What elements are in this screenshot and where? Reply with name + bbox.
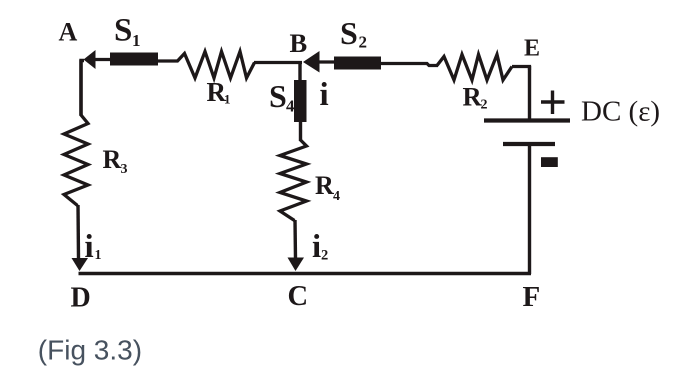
- label i1: [85, 229, 102, 265]
- svg-text:4: 4: [333, 189, 340, 204]
- svg-text:R: R: [463, 82, 483, 112]
- resistor R1: [177, 52, 255, 79]
- svg-text:i: i: [85, 229, 94, 265]
- resistor R4: [280, 140, 307, 221]
- wire arrow to S2: [318, 60, 335, 63]
- svg-text:F: F: [523, 281, 541, 313]
- wire R1 to B: [254, 61, 302, 64]
- current arrow i2: [288, 258, 305, 272]
- wire R2 to corner E: [512, 67, 530, 71]
- svg-text:1: 1: [95, 248, 102, 263]
- svg-text:3: 3: [121, 162, 128, 177]
- wire A down to R3: [79, 60, 82, 116]
- current arrow i1: [72, 258, 89, 271]
- wire S2 to R2: [381, 64, 438, 66]
- wire S4 to R4: [299, 122, 302, 141]
- svg-text:1: 1: [132, 31, 141, 50]
- svg-text:R: R: [315, 171, 334, 200]
- svg-text:S: S: [269, 78, 287, 114]
- switch S1: [110, 53, 158, 66]
- wire R3 down to arrow: [76, 205, 80, 259]
- svg-text:A: A: [59, 18, 78, 47]
- svg-text:DC (ε): DC (ε): [581, 96, 660, 128]
- svg-text:2: 2: [481, 98, 488, 113]
- svg-text:E: E: [524, 36, 540, 62]
- wire corner at A: [81, 61, 84, 116]
- label R1: [207, 77, 231, 107]
- wire arrow to S1: [94, 58, 111, 61]
- current arrow into B: [303, 51, 320, 73]
- wire R4 down to arrow: [293, 220, 297, 259]
- battery positive plate: [484, 118, 570, 122]
- svg-text:4: 4: [286, 97, 295, 116]
- svg-text:R: R: [103, 145, 122, 174]
- battery negative plate: [503, 142, 555, 146]
- label S4: [269, 78, 295, 116]
- label S1: [114, 12, 141, 50]
- resistor R2: [437, 55, 512, 81]
- wire E down to battery: [528, 66, 531, 120]
- wire S1 to R1: [158, 59, 178, 62]
- svg-text:C: C: [288, 281, 309, 312]
- svg-text:(Fig 3.3): (Fig 3.3): [38, 335, 142, 366]
- svg-text:i: i: [312, 229, 321, 265]
- switch S4: [294, 80, 307, 122]
- label R4: [315, 171, 340, 204]
- minus sign: [541, 157, 558, 167]
- label S2: [340, 15, 367, 52]
- current arrow at A: [84, 50, 96, 69]
- svg-text:S: S: [114, 12, 132, 48]
- svg-text:B: B: [290, 28, 308, 58]
- svg-text:2: 2: [321, 248, 328, 264]
- bottom wire D to C to F: [79, 272, 532, 276]
- svg-text:2: 2: [359, 33, 368, 52]
- svg-text:S: S: [340, 15, 358, 51]
- svg-text:D: D: [71, 283, 91, 314]
- label i2: [312, 229, 328, 265]
- resistor R3: [64, 115, 88, 206]
- label R2: [463, 82, 488, 113]
- svg-text:1: 1: [224, 92, 231, 107]
- plus sign: [541, 91, 565, 115]
- svg-text:i: i: [320, 77, 329, 113]
- switch S2: [334, 57, 381, 70]
- wire battery to F: [528, 144, 531, 274]
- label R3: [103, 145, 128, 177]
- junction wire B down to S4: [298, 62, 301, 82]
